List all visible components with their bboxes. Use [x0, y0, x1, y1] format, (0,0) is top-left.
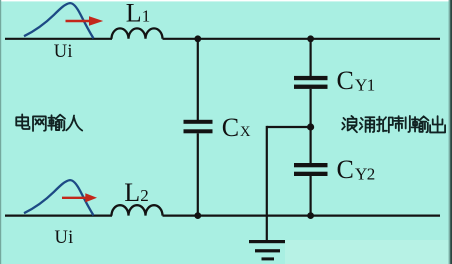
- junction node: CY midpoint: [307, 123, 314, 130]
- wire: top rail right segment: [163, 38, 441, 40]
- char 电: [16, 114, 29, 129]
- wire: bottom rail left segment: [5, 215, 112, 217]
- junction node: bottom rail / CY branch: [307, 212, 314, 219]
- svg-text:C: C: [337, 155, 354, 184]
- capacitor CY2 plates: [294, 163, 328, 176]
- junction node: top rail / CX branch: [194, 35, 201, 42]
- char 抑: [377, 117, 393, 133]
- svg-text:i: i: [68, 228, 73, 248]
- svg-text:Y: Y: [355, 164, 367, 183]
- wire: ground stem vertical: [266, 126, 268, 242]
- wire: ground branch horizontal (CY midpoint to ground stem): [267, 126, 311, 128]
- label L2: [124, 178, 149, 207]
- svg-text:2: 2: [367, 164, 376, 183]
- label: 浪涌抑制输出 (surge-suppressed output): [342, 116, 445, 133]
- edge artifact: left dark strip: [0, 0, 1, 264]
- edge artifact: top white strip: [0, 0, 449, 1]
- svg-text:2: 2: [140, 186, 149, 205]
- edge artifact: bottom-right light patch: [285, 240, 449, 264]
- label CY2: [337, 155, 376, 184]
- svg-text:1: 1: [367, 76, 376, 95]
- char 网: [33, 116, 46, 131]
- char 输: [48, 115, 65, 131]
- svg-text:U: U: [54, 42, 67, 62]
- char 入: [66, 116, 82, 131]
- label CX: [222, 113, 251, 142]
- svg-text:i: i: [67, 42, 72, 62]
- char 出: [430, 116, 445, 132]
- arrow: surge direction top: [66, 16, 104, 26]
- label: 电网输入 (mains input): [16, 114, 82, 131]
- junction node: bottom rail / CX branch: [194, 212, 201, 219]
- wire: CY2 lower lead: [310, 176, 312, 216]
- label Ui top: [54, 42, 73, 62]
- inductor L1: [112, 28, 163, 38]
- svg-text:U: U: [55, 228, 68, 248]
- surge waveform at bottom input: [24, 180, 94, 215]
- label CY1: [337, 66, 376, 95]
- char 制: [394, 116, 410, 132]
- svg-text:1: 1: [142, 6, 151, 25]
- wire: top rail left segment: [5, 38, 112, 40]
- svg-text:C: C: [222, 113, 239, 142]
- svg-text:C: C: [337, 66, 354, 95]
- char 浪: [342, 116, 357, 132]
- svg-text:Y: Y: [355, 76, 367, 95]
- label Ui bottom: [55, 228, 74, 248]
- arrow: surge direction bottom: [62, 193, 97, 202]
- capacitor CY1 plates: [294, 76, 328, 89]
- char 输: [412, 116, 429, 132]
- wire: CY1 to CY2 lead: [310, 89, 312, 163]
- svg-text:L: L: [126, 0, 142, 27]
- char 涌: [360, 117, 375, 132]
- edge artifact: right dark strip: [449, 0, 451, 264]
- label L1: [126, 0, 151, 27]
- junction node: top rail / CY branch: [307, 35, 314, 42]
- ground symbol: [249, 240, 285, 260]
- wire: CX lower lead: [197, 133, 199, 215]
- wire: bottom rail right segment: [163, 215, 441, 217]
- svg-text:L: L: [124, 178, 140, 207]
- surge waveform at top input: [24, 3, 94, 38]
- wire: CY1 upper lead: [310, 39, 312, 76]
- svg-text:X: X: [240, 124, 251, 140]
- capacitor CX plates: [184, 120, 213, 134]
- wire: CX upper lead: [197, 39, 199, 120]
- inductor L2: [112, 205, 163, 215]
